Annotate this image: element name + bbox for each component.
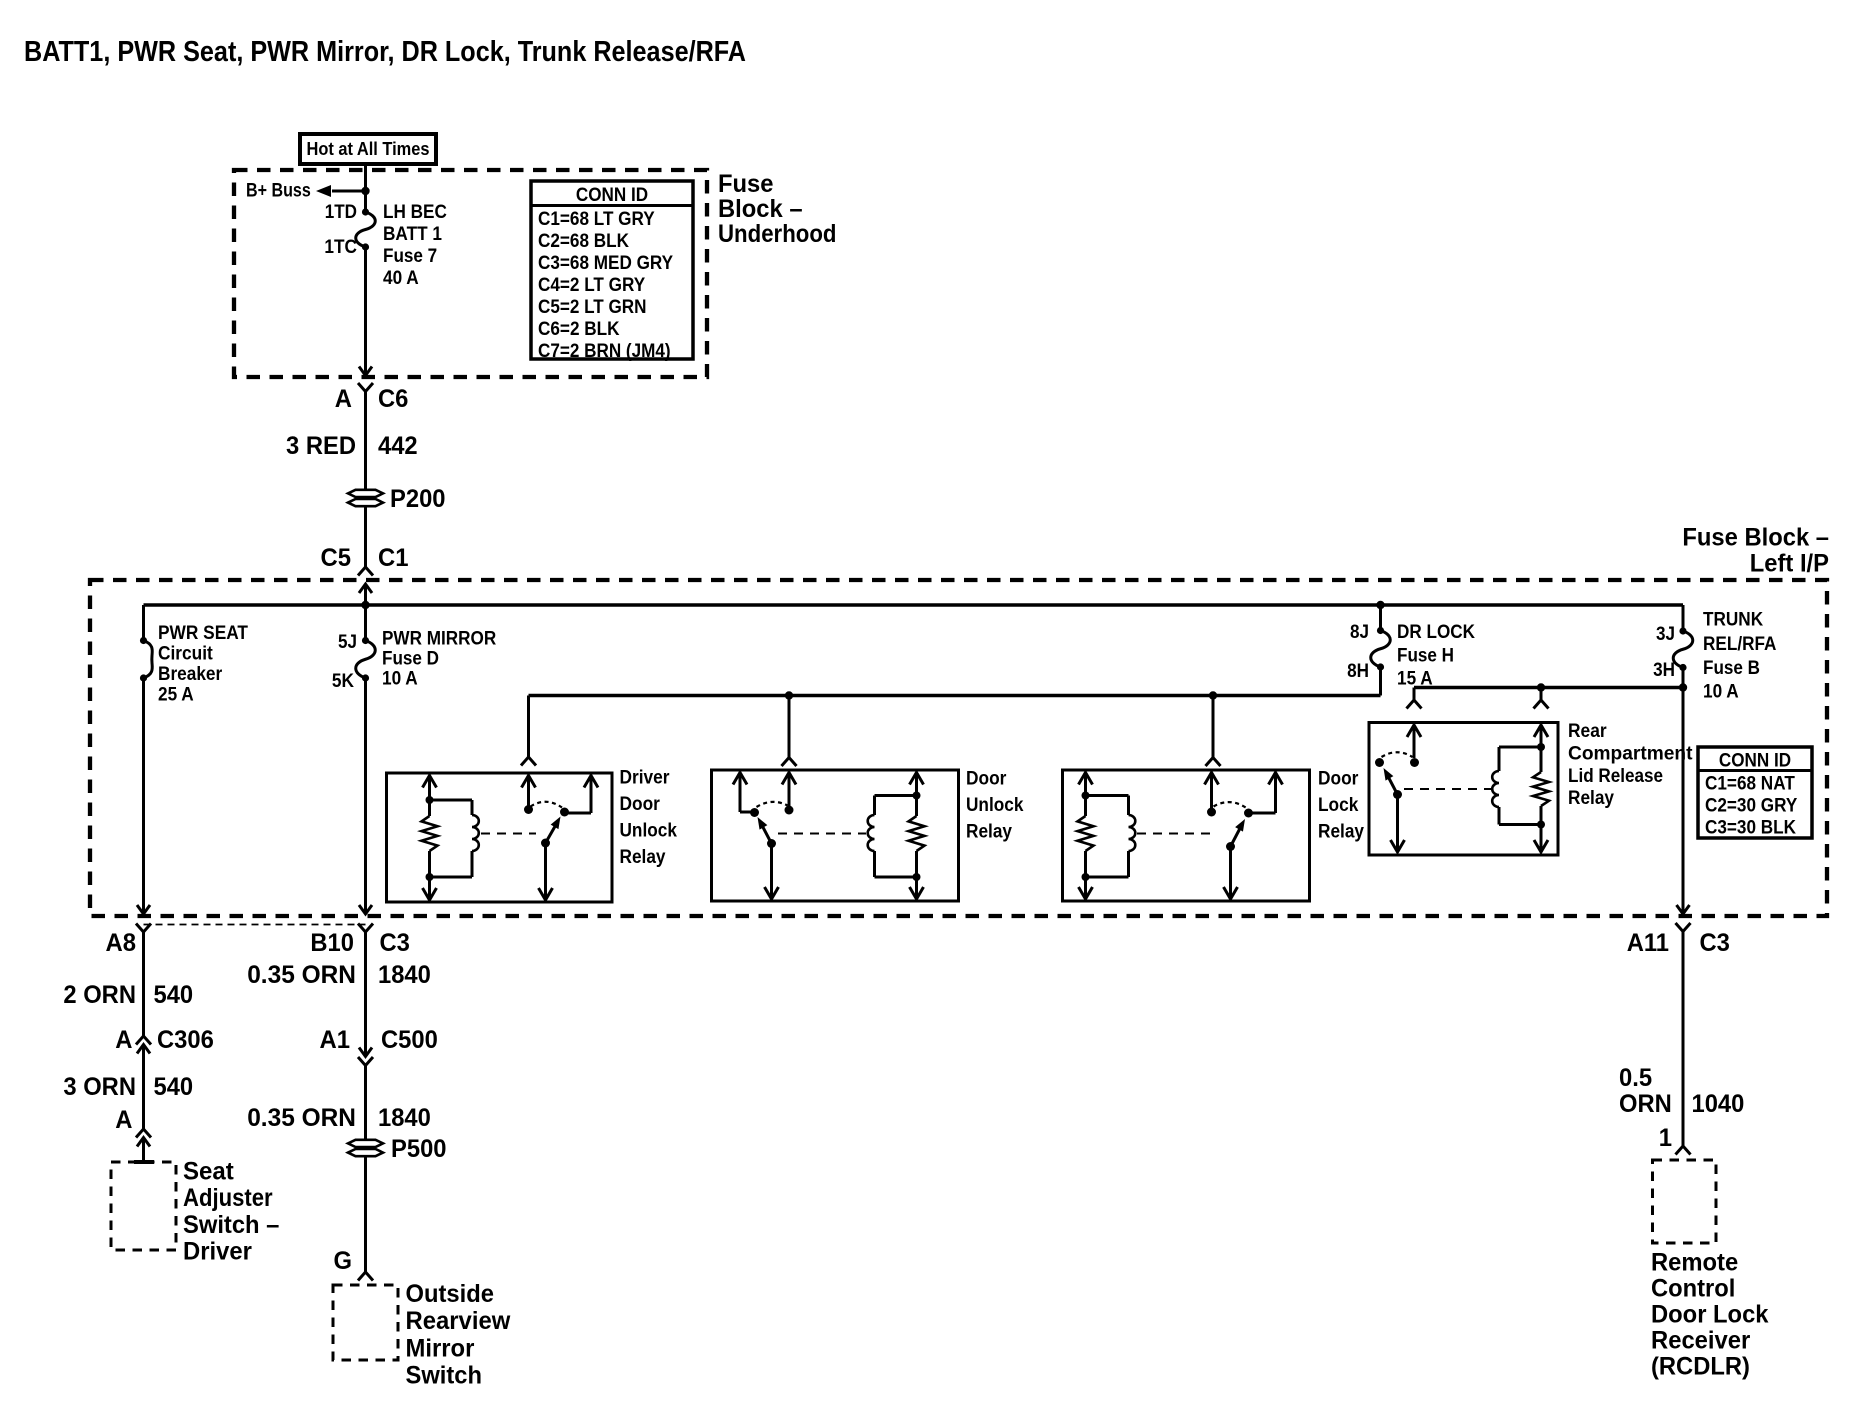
svg-text:CONN ID: CONN ID: [1719, 751, 1791, 772]
svg-text:C3=30 BLK: C3=30 BLK: [1705, 818, 1796, 839]
svg-text:C3: C3: [380, 929, 410, 957]
svg-text:Block –: Block –: [718, 195, 803, 223]
svg-text:1TD: 1TD: [325, 202, 357, 223]
svg-text:C3=68 MED GRY: C3=68 MED GRY: [538, 253, 673, 274]
svg-text:Relay: Relay: [1568, 788, 1614, 809]
svg-text:Relay: Relay: [966, 821, 1012, 842]
svg-text:C3: C3: [1700, 929, 1730, 957]
svg-text:Underhood: Underhood: [718, 220, 837, 248]
svg-text:Fuse: Fuse: [718, 170, 774, 198]
svg-text:10 A: 10 A: [1703, 682, 1739, 703]
svg-text:C6: C6: [378, 385, 408, 413]
svg-text:Unlock: Unlock: [966, 795, 1024, 816]
svg-text:A1: A1: [320, 1026, 351, 1054]
svg-text:A: A: [115, 1106, 132, 1134]
svg-text:Fuse H: Fuse H: [1397, 646, 1454, 667]
svg-text:A: A: [115, 1026, 132, 1054]
svg-text:Lid Release: Lid Release: [1568, 766, 1663, 787]
svg-text:Mirror: Mirror: [406, 1335, 475, 1363]
svg-text:G: G: [334, 1247, 353, 1275]
svg-text:DR LOCK: DR LOCK: [1397, 622, 1475, 643]
svg-text:BATT1, PWR Seat, PWR Mirror, D: BATT1, PWR Seat, PWR Mirror, DR Lock, Tr…: [24, 36, 746, 68]
svg-text:540: 540: [154, 981, 194, 1009]
svg-text:1840: 1840: [378, 961, 431, 989]
svg-text:Relay: Relay: [620, 847, 666, 868]
svg-text:Breaker: Breaker: [158, 664, 223, 685]
svg-text:PWR SEAT: PWR SEAT: [158, 623, 248, 644]
svg-text:ORN: ORN: [1619, 1090, 1672, 1118]
svg-text:3H: 3H: [1653, 660, 1675, 681]
svg-text:TRUNK: TRUNK: [1703, 610, 1763, 631]
svg-text:Receiver: Receiver: [1651, 1327, 1751, 1355]
svg-text:PWR MIRROR: PWR MIRROR: [382, 629, 496, 650]
svg-text:Compartment: Compartment: [1568, 743, 1693, 764]
svg-text:Door: Door: [1318, 768, 1359, 789]
svg-text:A: A: [335, 385, 352, 413]
svg-text:8J: 8J: [1350, 622, 1369, 643]
svg-text:C6=2 BLK: C6=2 BLK: [538, 319, 620, 340]
svg-text:1040: 1040: [1692, 1090, 1745, 1118]
svg-text:Fuse D: Fuse D: [382, 649, 439, 670]
svg-text:Fuse Block –: Fuse Block –: [1682, 524, 1829, 552]
svg-text:Door: Door: [620, 794, 661, 815]
svg-text:C500: C500: [381, 1026, 438, 1054]
svg-text:8H: 8H: [1347, 661, 1369, 682]
svg-text:Unlock: Unlock: [620, 821, 678, 842]
svg-text:C1=68 NAT: C1=68 NAT: [1705, 774, 1795, 795]
svg-text:P500: P500: [391, 1135, 447, 1163]
svg-text:40 A: 40 A: [383, 268, 419, 289]
svg-text:3J: 3J: [1656, 624, 1675, 645]
svg-text:Left I/P: Left I/P: [1750, 550, 1829, 578]
svg-text:Hot at All Times: Hot at All Times: [307, 139, 430, 159]
svg-text:5K: 5K: [332, 671, 354, 692]
svg-text:1840: 1840: [378, 1104, 431, 1132]
svg-text:2 ORN: 2 ORN: [63, 981, 136, 1009]
svg-text:P200: P200: [390, 485, 446, 513]
svg-text:25 A: 25 A: [158, 685, 194, 706]
svg-text:0.5: 0.5: [1619, 1064, 1652, 1092]
svg-text:1: 1: [1659, 1124, 1672, 1152]
svg-text:Switch: Switch: [406, 1362, 483, 1390]
svg-text:Driver: Driver: [620, 768, 671, 789]
svg-text:Door Lock: Door Lock: [1651, 1301, 1769, 1329]
svg-text:C1: C1: [378, 544, 409, 572]
svg-text:REL/RFA: REL/RFA: [1703, 634, 1777, 655]
svg-text:Switch –: Switch –: [183, 1211, 279, 1239]
svg-text:C5=2 LT GRN: C5=2 LT GRN: [538, 297, 647, 318]
svg-text:Fuse 7: Fuse 7: [383, 246, 437, 267]
svg-text:Adjuster: Adjuster: [183, 1184, 273, 1212]
svg-text:Rear: Rear: [1568, 721, 1607, 742]
svg-text:Lock: Lock: [1318, 795, 1359, 816]
svg-text:Door: Door: [966, 768, 1007, 789]
svg-text:C1=68 LT GRY: C1=68 LT GRY: [538, 209, 655, 230]
svg-text:Remote: Remote: [1651, 1249, 1738, 1277]
svg-text:B+ Buss: B+ Buss: [246, 181, 311, 202]
svg-text:B10: B10: [310, 929, 354, 957]
svg-text:CONN ID: CONN ID: [576, 185, 648, 206]
svg-text:0.35 ORN: 0.35 ORN: [247, 961, 356, 989]
svg-text:10 A: 10 A: [382, 669, 418, 690]
svg-text:C2=30 GRY: C2=30 GRY: [1705, 796, 1798, 817]
svg-text:Rearview: Rearview: [406, 1307, 511, 1335]
svg-text:(RCDLR): (RCDLR): [1651, 1353, 1750, 1381]
svg-text:Fuse B: Fuse B: [1703, 658, 1760, 679]
svg-text:BATT 1: BATT 1: [383, 224, 442, 245]
svg-text:A8: A8: [106, 929, 137, 957]
svg-text:Relay: Relay: [1318, 821, 1364, 842]
svg-text:LH BEC: LH BEC: [383, 202, 447, 223]
svg-text:540: 540: [154, 1073, 194, 1101]
svg-text:C4=2 LT GRY: C4=2 LT GRY: [538, 275, 645, 296]
svg-text:C5: C5: [321, 544, 352, 572]
svg-text:C306: C306: [157, 1026, 214, 1054]
svg-text:C2=68 BLK: C2=68 BLK: [538, 231, 629, 252]
svg-text:3 ORN: 3 ORN: [63, 1073, 136, 1101]
svg-text:Seat: Seat: [183, 1158, 234, 1186]
svg-text:1TC: 1TC: [324, 237, 357, 258]
svg-text:Control: Control: [1651, 1275, 1735, 1303]
svg-text:Driver: Driver: [183, 1238, 252, 1266]
svg-text:A11: A11: [1627, 929, 1669, 957]
svg-text:0.35 ORN: 0.35 ORN: [247, 1104, 356, 1132]
svg-text:Outside: Outside: [406, 1280, 495, 1308]
svg-text:Circuit: Circuit: [158, 644, 213, 665]
svg-text:3 RED: 3 RED: [286, 432, 356, 460]
svg-text:442: 442: [378, 432, 418, 460]
svg-text:5J: 5J: [338, 632, 357, 653]
svg-text:C7=2 BRN (JM4): C7=2 BRN (JM4): [538, 341, 671, 362]
